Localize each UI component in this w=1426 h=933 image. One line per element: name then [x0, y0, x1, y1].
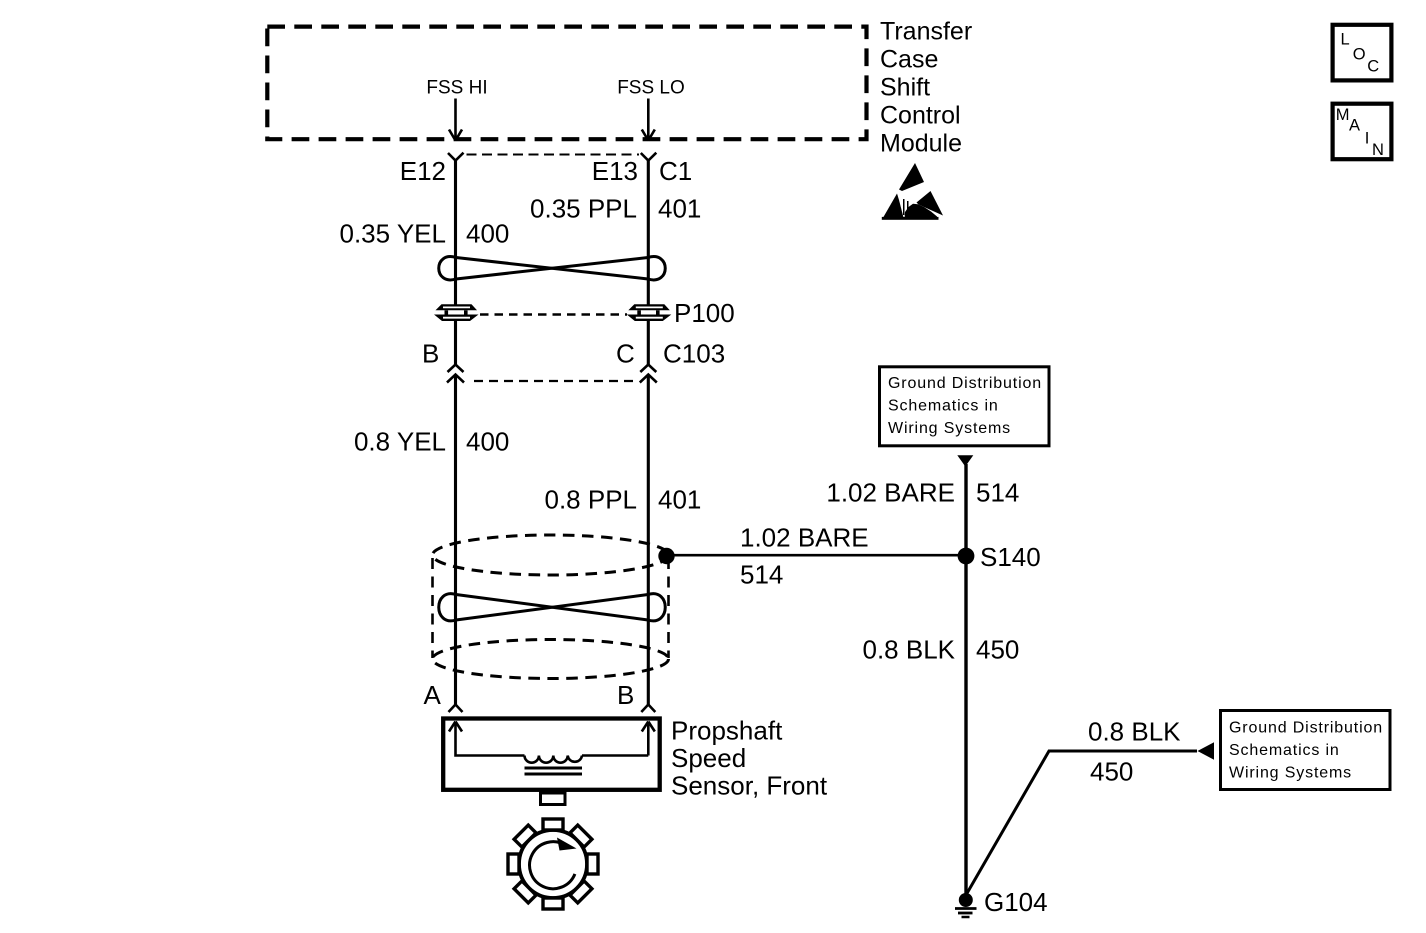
shielding: dashed cylinder top ellipse	[433, 535, 669, 575]
svg-text:C: C	[1367, 58, 1379, 76]
svg-text:Wiring Systems: Wiring Systems	[888, 420, 1011, 437]
svg-text:I: I	[1365, 130, 1370, 148]
sensor internal pickup coil circuit	[449, 722, 655, 763]
dashed tie line at C103 break	[474, 380, 636, 382]
svg-text:401: 401	[658, 485, 701, 515]
svg-text:C103: C103	[663, 339, 725, 369]
svg-text:FSS LO: FSS LO	[617, 78, 685, 99]
svg-text:0.8 BLK: 0.8 BLK	[862, 635, 955, 665]
svg-text:Speed: Speed	[671, 743, 746, 773]
svg-text:0.8 BLK: 0.8 BLK	[1088, 717, 1181, 747]
svg-text:450: 450	[976, 635, 1019, 665]
shielding: dashed cylinder bottom ellipse	[433, 640, 669, 679]
svg-text:1.02 BARE: 1.02 BARE	[740, 523, 869, 553]
wire 450 vertical segment	[964, 556, 967, 896]
connector P100 dashed tie line	[480, 313, 627, 316]
svg-text:Module: Module	[880, 130, 962, 158]
off-page arrow to upper reference box	[957, 455, 973, 466]
svg-text:0.8 PPL: 0.8 PPL	[544, 485, 637, 515]
svg-text:Ground Distribution: Ground Distribution	[888, 375, 1042, 392]
svg-text:L: L	[1341, 31, 1350, 49]
svg-text:Schematics in: Schematics in	[1229, 742, 1340, 759]
svg-text:C: C	[616, 339, 635, 369]
sensor coil core lines	[525, 767, 583, 770]
wire 401 lower segment	[647, 375, 650, 706]
sensor box: Propshaft Speed Sensor, Front	[443, 719, 660, 790]
svg-text:N: N	[1372, 141, 1384, 159]
shielding: dashed cylinder right side	[667, 558, 670, 658]
wire 514 vertical segment	[964, 464, 967, 556]
reluctor wheel (tone ring)	[508, 819, 598, 909]
svg-text:Transfer: Transfer	[880, 18, 972, 46]
wire 400 lower segment	[454, 375, 457, 706]
shield drain junction dot	[658, 548, 674, 564]
reference box: Ground Distribution Schematics in Wiring Systems (upper)	[880, 367, 1050, 446]
ESD sensitive device symbol	[882, 163, 943, 220]
svg-text:514: 514	[740, 560, 783, 590]
svg-text:A: A	[1349, 117, 1360, 135]
sensor mounting tab	[541, 793, 566, 805]
svg-text:400: 400	[466, 427, 509, 457]
in-line connector P100 left half	[434, 304, 479, 321]
splice S140	[958, 548, 975, 565]
svg-text:Sensor, Front: Sensor, Front	[671, 771, 828, 801]
svg-text:Schematics in: Schematics in	[888, 398, 999, 415]
svg-text:Control: Control	[880, 102, 961, 130]
wire 401 upper segment	[647, 160, 650, 306]
svg-text:S140: S140	[980, 542, 1041, 572]
svg-text:0.35 YEL: 0.35 YEL	[339, 219, 446, 249]
wire 400 upper segment	[454, 160, 457, 306]
module U1: Transfer Case Shift Control Module (dashed outline)	[267, 27, 866, 140]
svg-text:Shift: Shift	[880, 74, 930, 102]
female terminal E13	[641, 153, 657, 161]
ground G104 dot	[959, 893, 973, 907]
svg-text:E13: E13	[592, 156, 638, 186]
svg-text:G104: G104	[984, 887, 1048, 917]
svg-text:B: B	[617, 680, 634, 710]
shielding: dashed cylinder left side	[431, 558, 434, 658]
svg-text:400: 400	[466, 219, 509, 249]
MAIN reference box	[1333, 104, 1392, 160]
FSS LO output arrow	[642, 99, 655, 141]
svg-text:401: 401	[658, 194, 701, 224]
svg-text:0.8 YEL: 0.8 YEL	[354, 427, 446, 457]
break chevrons on wire 401	[640, 365, 657, 383]
wire 450 diagonal segment to ground reference	[966, 751, 1197, 895]
svg-text:B: B	[422, 339, 439, 369]
wire 514 horizontal (shield drain)	[667, 554, 967, 557]
svg-text:514: 514	[976, 478, 1019, 508]
ground symbol	[955, 907, 977, 910]
svg-text:0.35 PPL: 0.35 PPL	[530, 194, 637, 224]
terminal at sensor pin B	[641, 705, 655, 713]
wire 400 segment below P100	[454, 321, 457, 365]
svg-text:1.02 BARE: 1.02 BARE	[826, 478, 955, 508]
svg-text:A: A	[424, 680, 442, 710]
female terminal E12	[448, 153, 464, 161]
svg-text:O: O	[1353, 46, 1366, 64]
svg-text:Case: Case	[880, 46, 938, 74]
svg-text:M: M	[1336, 106, 1350, 124]
svg-text:C1: C1	[659, 156, 692, 186]
svg-text:P100: P100	[674, 298, 735, 328]
off-page arrow to lower reference box	[1198, 742, 1215, 759]
svg-text:FSS HI: FSS HI	[426, 78, 487, 99]
LOC reference box	[1333, 25, 1392, 81]
svg-text:Ground Distribution: Ground Distribution	[1229, 720, 1383, 737]
break chevrons on wire 400	[447, 365, 464, 383]
svg-text:450: 450	[1090, 757, 1133, 787]
svg-text:Propshaft: Propshaft	[671, 716, 783, 746]
in-line connector P100 right half	[627, 304, 672, 321]
connector C1 dashed tie line	[467, 154, 640, 156]
svg-text:Wiring Systems: Wiring Systems	[1229, 765, 1352, 782]
reference box: Ground Distribution Schematics in Wiring Systems (lower)	[1221, 711, 1391, 790]
wire 401 segment below P100	[647, 321, 650, 365]
rotation arrow inside wheel	[530, 842, 575, 889]
FSS HI output arrow	[449, 99, 462, 141]
svg-text:E12: E12	[400, 156, 446, 186]
twisted pair symbol (lower, inside shield)	[439, 594, 666, 621]
twisted pair symbol (upper)	[439, 257, 666, 280]
terminal at sensor pin A	[449, 705, 463, 713]
